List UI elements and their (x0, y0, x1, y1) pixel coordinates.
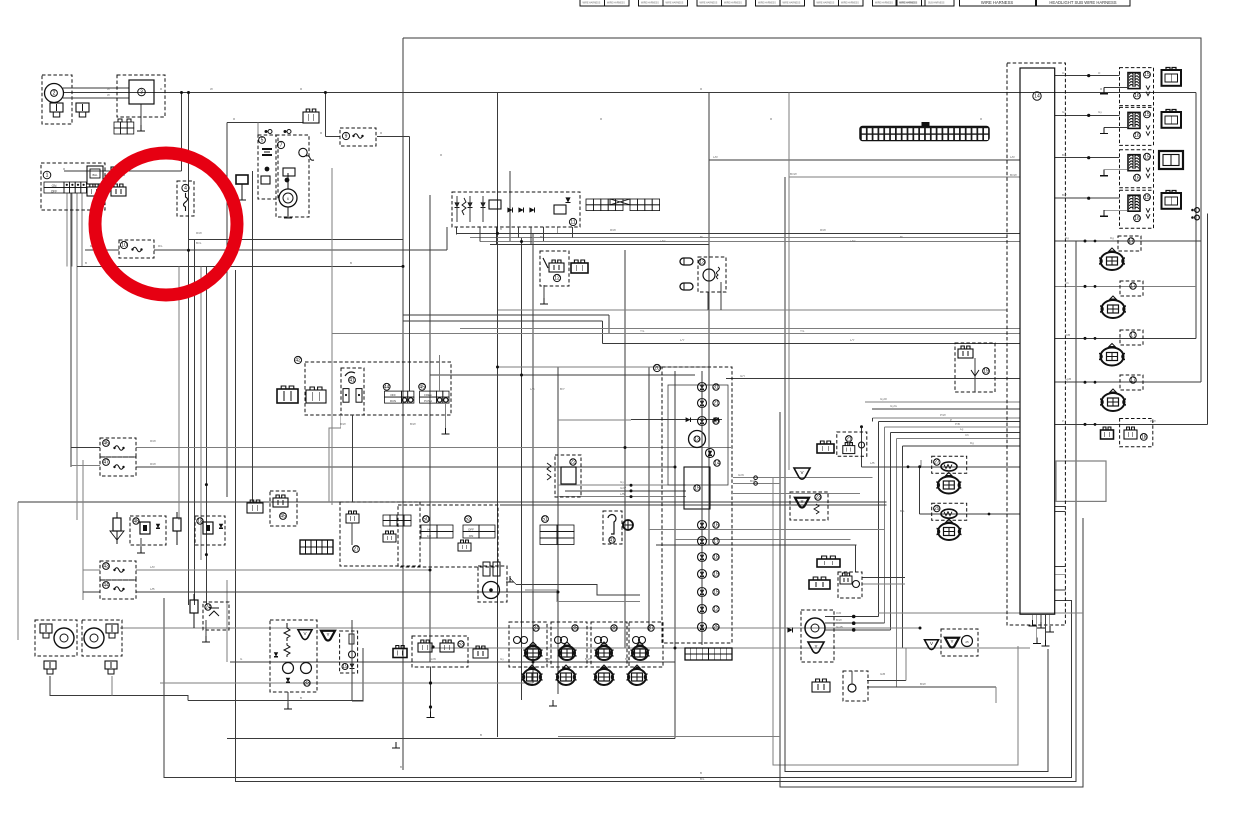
coolant temp sensor (24) (190, 600, 198, 613)
svg-text:LO: LO (427, 534, 432, 538)
wire: fuse9 wires (325, 136, 340, 138)
wire: vertical x430 (429, 195, 431, 662)
svg-text:G/B: G/B (880, 672, 885, 676)
throttle body connector row (523, 669, 541, 685)
svg-text:16: 16 (713, 523, 719, 529)
svg-text:WIRE HARNESS: WIRE HARNESS (583, 2, 601, 5)
wire: meter diode row (631, 419, 722, 421)
bar bottom pins (1032, 614, 1034, 626)
wire: bar side stubs (1055, 506, 1066, 508)
svg-text:B/L: B/L (700, 777, 705, 781)
wire: switch feed horizontal (64, 170, 182, 172)
connector F dark (809, 580, 830, 589)
left horn 1 (35, 620, 77, 656)
svg-text:47: 47 (103, 460, 109, 466)
svg-text:Gy: Gy (620, 480, 624, 484)
svg-text:18: 18 (713, 555, 719, 561)
svg-text:13: 13 (699, 260, 705, 266)
svg-text:WIRE HARNESS: WIRE HARNESS (724, 2, 742, 5)
wire: y628 long gray (120, 627, 920, 629)
intake air pressure sensor (29) (932, 503, 967, 520)
wire: injector row 1 (1055, 240, 1201, 242)
wire: pickup stair (510, 578, 640, 595)
svg-text:21: 21 (713, 401, 719, 407)
svg-text:W: W (107, 93, 110, 97)
wire: main switch legs (66, 193, 68, 266)
wire: vertical x709 (708, 93, 710, 546)
battery (5) (258, 135, 278, 199)
O2 sensor junction bullets (852, 615, 856, 619)
wire: vertical x625 (624, 250, 626, 648)
oil pressure relay (28) (843, 671, 868, 701)
bold ring connector (623, 520, 633, 530)
intake solenoid group 3 (36) (591, 622, 627, 667)
svg-text:35: 35 (572, 626, 578, 632)
intake solenoid group 2 (35) (551, 622, 587, 667)
svg-text:46: 46 (103, 441, 109, 447)
wire: TPS link vertical (919, 467, 921, 514)
wire: bottom bus y738 (227, 737, 675, 739)
wire: comp26 drop (855, 545, 857, 572)
indicator triangle V (794, 468, 810, 479)
wire: harness h y367 (498, 366, 710, 368)
svg-text:R/W: R/W (196, 231, 202, 235)
connector SdM dark (817, 444, 834, 453)
legend box WIRE HARNESS (960, 0, 1036, 6)
svg-text:42: 42 (295, 358, 301, 364)
svg-text:B/W: B/W (340, 422, 346, 426)
relay (26) small (838, 572, 862, 598)
svg-text:16: 16 (1134, 216, 1140, 222)
svg-text:13: 13 (694, 437, 700, 443)
svg-text:Y: Y (800, 499, 803, 504)
svg-text:17: 17 (1130, 284, 1136, 290)
wire: rectifier output main feed (63, 92, 1196, 94)
wire: coil feed 2 (1055, 114, 1120, 116)
wire: x227 low section (226, 580, 228, 662)
ignition fuse (4) (177, 181, 194, 216)
svg-text:18: 18 (1141, 435, 1147, 441)
svg-text:B/W: B/W (750, 479, 756, 483)
svg-text:Gy/R: Gy/R (880, 397, 888, 401)
svg-text:B/Y: B/Y (560, 387, 565, 391)
wire: meters bus y420 (558, 419, 631, 421)
svg-text:L/B: L/B (530, 387, 535, 391)
ground symbols row (552, 700, 554, 706)
wire: loop A (785, 177, 1048, 772)
wire: vertical x403 (402, 38, 404, 770)
coil connector 3 (1159, 151, 1183, 169)
wire: sensor cluster verticals (920, 460, 922, 467)
wire colour code table (586, 199, 593, 205)
diode-unit wire (351, 620, 353, 701)
wire: top bus to right edge (403, 38, 1201, 382)
svg-text:Y/L: Y/L (640, 329, 645, 333)
engine stop switch (40)(41) inner box (341, 368, 364, 415)
svg-text:R/W: R/W (150, 439, 156, 443)
svg-text:G/W: G/W (620, 486, 626, 490)
svg-text:16: 16 (1134, 93, 1140, 99)
svg-text:B/W: B/W (585, 657, 591, 661)
wire: vertical main harness left B (194, 239, 196, 605)
svg-text:44: 44 (384, 384, 390, 390)
svg-text:L/B: L/B (620, 492, 625, 496)
svg-text:7: 7 (280, 143, 283, 149)
wire: bus y315 (403, 314, 609, 316)
diode pack near meter (787, 627, 792, 632)
fuse (9) 30A (340, 128, 376, 146)
second junction diamond (285, 178, 290, 183)
svg-text:WIRE HARNESS: WIRE HARNESS (700, 2, 718, 5)
ignition coil 2 (15) with spark plug (16) (1120, 107, 1154, 145)
ignition coil 4 (15) with spark plug (16) (1120, 190, 1154, 228)
shield gray box (1056, 461, 1106, 501)
svg-text:3: 3 (140, 90, 143, 96)
wire: vertical x521 (521, 238, 523, 700)
svg-text:Gy/G: Gy/G (890, 404, 898, 408)
wire: comp28 risers (905, 648, 907, 680)
connector right of group (473, 649, 488, 658)
wire: right vertical to injector row3 (1195, 93, 1197, 339)
meter LEDs upper (698, 383, 707, 392)
sensor (48) (130, 516, 166, 545)
wire: fuse row 47 output (136, 466, 675, 468)
legend box HEADLIGHT SUB WIRE HARNESS (1037, 0, 1131, 6)
wire: injector row 2 (1055, 285, 1196, 287)
sidestand switch ground (543, 285, 545, 300)
wire: vertical battery drop (226, 122, 228, 497)
wire: corner x602 (602, 321, 604, 343)
coil connector 2 (1162, 112, 1182, 128)
wire: vertical x789 (788, 93, 790, 471)
svg-text:2: 2 (53, 91, 56, 97)
meter LCD box (15) (684, 467, 710, 509)
wire: gray y613 (878, 612, 1083, 614)
svg-text:52: 52 (465, 517, 471, 523)
rear brake switch (21) (837, 432, 867, 456)
wire: vertical x181 from main bus (181, 93, 183, 172)
wire: vertical x649 (648, 367, 650, 631)
svg-text:B/Y: B/Y (1062, 193, 1067, 197)
svg-text:Ch: Ch (1065, 281, 1069, 285)
wire: stair verticals down (878, 421, 880, 616)
wire: comp28 rows (867, 679, 906, 681)
connector block below rectifier (114, 122, 121, 128)
svg-text:HEADLIGHT SUB WIRE HARNESS: HEADLIGHT SUB WIRE HARNESS (1049, 0, 1116, 5)
svg-text:Y/L: Y/L (800, 329, 805, 333)
red highlight circle (95, 153, 237, 295)
connector pair under BHL (87, 187, 101, 196)
wire: bar feed y177 (789, 176, 1020, 178)
svg-text:WIRE HARNESS: WIRE HARNESS (607, 2, 625, 5)
fuel injector 3 (17) (1120, 330, 1143, 345)
svg-text:1: 1 (46, 173, 49, 179)
ignition coil 3 (15) with spark plug (16) (1120, 150, 1154, 188)
svg-text:Br: Br (540, 235, 543, 239)
svg-text:16: 16 (1134, 133, 1140, 139)
svg-text:B: B (400, 765, 402, 769)
svg-text:11: 11 (570, 220, 575, 226)
meter assembly (20) (662, 367, 732, 643)
relay (45) flasher (270, 491, 297, 526)
svg-text:6: 6 (287, 197, 289, 201)
svg-text:B/L: B/L (1062, 153, 1067, 157)
svg-text:B: B (500, 227, 502, 231)
sensor row 5 connectors (18) (1120, 419, 1153, 447)
meter diodes on row (686, 417, 691, 422)
wire: loop B (164, 598, 1071, 778)
svg-text:15: 15 (1144, 154, 1150, 160)
handlebar switch assembly (42) (305, 362, 451, 415)
svg-text:WIRE HARNESS: WIRE HARNESS (981, 0, 1014, 5)
AC magneto generator (2) (42, 75, 72, 124)
starter relay (7) and starter motor (6) (276, 135, 309, 217)
wire: bus y239 (189, 238, 404, 240)
wire: bar feed y343 (603, 342, 1021, 344)
sensor (13) neutral switch (195, 516, 225, 545)
svg-text:L/W: L/W (660, 239, 666, 243)
meter clock circle (13) (689, 431, 706, 448)
wire: battery positive bus (227, 121, 303, 123)
svg-text:Br: Br (900, 235, 903, 239)
svg-text:12: 12 (554, 276, 560, 282)
svg-text:19: 19 (983, 369, 989, 375)
svg-text:25: 25 (713, 625, 719, 631)
fuse (43) (100, 561, 136, 580)
fusible link connectors (265, 130, 268, 133)
svg-text:L/Y: L/Y (850, 338, 855, 342)
wire: vertical x558 (557, 367, 559, 694)
svg-text:R/W: R/W (150, 462, 156, 466)
svg-text:W: W (107, 87, 110, 91)
bullet connectors right edge (1195, 208, 1200, 213)
svg-text:15: 15 (1144, 112, 1150, 118)
svg-text:24: 24 (205, 605, 211, 611)
wire: bus y540 (675, 539, 851, 541)
svg-text:44: 44 (103, 583, 109, 589)
svg-text:17: 17 (713, 539, 719, 545)
svg-text:WIRE HARNESS: WIRE HARNESS (783, 2, 801, 5)
sidestand switch (12) (540, 251, 569, 286)
wire: TPS row 2 (920, 513, 1020, 515)
wire: comp26 rows (862, 577, 905, 579)
svg-text:B: B (700, 771, 702, 775)
svg-text:PUSH: PUSH (424, 399, 432, 403)
relay box (26) with diode (27) (340, 502, 420, 566)
wire: riser x447 (446, 227, 448, 250)
svg-text:5: 5 (261, 138, 264, 144)
wire: bus y244 (490, 244, 709, 246)
svg-text:12: 12 (713, 607, 719, 613)
wire: relay output bus y310 (498, 309, 1007, 311)
pickup ground (509, 576, 511, 582)
svg-text:15: 15 (1144, 195, 1150, 201)
svg-text:Br/L: Br/L (196, 241, 202, 245)
small relay box right (111, 167, 124, 175)
svg-text:23: 23 (815, 495, 821, 501)
horn connector 2 (105, 661, 117, 669)
svg-text:31: 31 (713, 385, 719, 391)
svg-text:19: 19 (342, 664, 348, 670)
svg-text:15: 15 (694, 486, 700, 492)
junction dots on main feed (180, 91, 183, 94)
svg-text:R/L: R/L (158, 244, 163, 248)
legend strip: wire harness name boxes (top edge, cropped) (580, 0, 605, 6)
speed sensor symbol (173, 518, 181, 531)
main harness joint connector strip (860, 127, 989, 141)
svg-text:13: 13 (197, 519, 203, 525)
svg-text:41: 41 (609, 538, 615, 544)
svg-text:16: 16 (1134, 175, 1140, 181)
wire: vertical x675 (674, 371, 676, 738)
multi-pin connector mid-left (300, 540, 333, 554)
svg-text:WIRE HARNESS: WIRE HARNESS (641, 2, 659, 5)
wire: fuse row 46 output (136, 447, 731, 449)
svg-text:9: 9 (345, 134, 348, 140)
wire: switch leg long (76, 266, 78, 520)
svg-text:Y: Y (950, 639, 953, 644)
svg-text:ON: ON (52, 184, 57, 188)
svg-text:WIRE HARNESS: WIRE HARNESS (841, 2, 859, 5)
battery positive connector (303, 112, 319, 123)
bottom joint connector (685, 648, 732, 660)
svg-text:O/B: O/B (1065, 333, 1070, 337)
svg-text:G/Y: G/Y (740, 374, 745, 378)
svg-text:Y: Y (814, 644, 817, 649)
svg-text:50: 50 (423, 517, 429, 523)
fuse (46) (100, 438, 136, 457)
svg-text:17: 17 (1130, 378, 1136, 384)
intake solenoid group 4 (37) (629, 622, 663, 667)
wire: vertical to lower fuses (82, 460, 84, 600)
wire: injector row 3 (1055, 337, 1196, 339)
connector left of group (393, 649, 407, 658)
diode block / relay assembly (11) (452, 192, 580, 227)
svg-text:SUB HARNESS: SUB HARNESS (928, 2, 945, 5)
connector comb bold left of 42 (277, 389, 298, 403)
svg-text:Dg: Dg (1065, 236, 1069, 240)
wire: TPS row 1 (862, 466, 1021, 468)
sensor (23) with resistor (790, 492, 828, 520)
svg-text:G/W: G/W (430, 657, 436, 661)
svg-text:37: 37 (648, 626, 654, 632)
fuel injector 1 (17) (1118, 236, 1141, 251)
oval connector b (680, 283, 693, 290)
headlight relay box BHL (87, 166, 103, 184)
coil connector 1 (1162, 70, 1182, 86)
svg-text:Br: Br (700, 235, 703, 239)
sensor ground stub (205, 620, 207, 638)
wire: rectifier ground (140, 104, 142, 125)
diode block pin stubs (456, 227, 458, 235)
wire: meter feed rows (558, 484, 686, 486)
svg-text:B: B (480, 733, 482, 737)
svg-text:P/B: P/B (955, 422, 960, 426)
fuse (47) (100, 457, 136, 476)
wire: fuse row 44 output (136, 591, 558, 593)
wire: bottom-left horn drops (50, 676, 188, 701)
svg-text:48: 48 (133, 519, 139, 525)
wire: bar feed y402 (865, 401, 1020, 403)
wire: loop gray right (773, 478, 1018, 765)
intake solenoid group 1 (34) (509, 622, 547, 667)
left horn 2 (82, 620, 122, 656)
coil connector 4 (1162, 193, 1182, 209)
main switch (1) (41, 163, 105, 210)
svg-text:36: 36 (611, 626, 617, 632)
wire: bus y321 (403, 320, 603, 322)
connector M dark (817, 559, 840, 567)
wire: y700 bus (188, 700, 363, 702)
svg-text:Lg: Lg (960, 427, 964, 431)
svg-text:4: 4 (184, 186, 187, 192)
wire: vertical x510 (509, 171, 511, 242)
wire: O2 sensor rows (825, 616, 879, 618)
svg-text:Br/W: Br/W (790, 172, 797, 176)
sensor (22) throttle switch (555, 455, 581, 497)
connector below oxygen sensor (812, 682, 830, 692)
wire: bar feed y241 (480, 241, 1020, 243)
connector pair mid (247, 503, 263, 513)
wire: bar feed y334 (332, 333, 1020, 335)
wire: gray verticals below switch (178, 266, 180, 520)
svg-text:V: V (303, 631, 306, 636)
svg-text:O/R: O/R (836, 611, 842, 615)
wire: vertical x71 to fuse stack (70, 193, 72, 467)
svg-text:Gy: Gy (1062, 110, 1066, 114)
starter switch (52) (465, 516, 472, 523)
wire: bar feed y378 (726, 378, 1020, 380)
svg-text:Y: Y (326, 632, 329, 637)
wire: bus y505 (500, 504, 886, 506)
svg-text:14: 14 (714, 461, 720, 467)
svg-text:OFF: OFF (468, 528, 474, 532)
oxygen sensor (38) (801, 610, 834, 662)
meter LEDs lower (698, 521, 707, 530)
svg-text:WIRE HARNESS: WIRE HARNESS (875, 2, 893, 5)
wire: stair cluster into bar (873, 417, 1020, 419)
svg-text:53: 53 (458, 642, 464, 648)
wire: y662 bus (230, 661, 675, 663)
meter diode (14) (706, 449, 715, 458)
svg-text:RUN: RUN (390, 399, 396, 403)
turn indicator triangles (298, 630, 312, 640)
svg-text:BHL: BHL (92, 173, 98, 177)
wire: relay drops (707, 293, 709, 310)
frame ground connector (9) (236, 175, 248, 184)
dimmer switch (50) (398, 505, 498, 567)
wire: bus y545 (656, 544, 857, 546)
svg-text:WIRE HARNESS: WIRE HARNESS (666, 2, 684, 5)
wire: bus y502 (18, 501, 886, 503)
svg-text:B/O: B/O (625, 657, 631, 661)
horn connector 1 (44, 661, 56, 669)
svg-text:V: V (800, 470, 803, 475)
wire: fuse10 feed (85, 249, 119, 251)
svg-text:33: 33 (304, 681, 310, 687)
svg-text:Gy/B: Gy/B (836, 625, 843, 629)
wire: fuse row 43 output (136, 569, 430, 571)
svg-text:41: 41 (349, 378, 355, 384)
svg-text:Lg/B: Lg/B (1065, 377, 1071, 381)
svg-text:G/W: G/W (738, 473, 744, 477)
svg-text:17: 17 (1128, 239, 1134, 245)
svg-text:19: 19 (713, 572, 719, 578)
svg-text:Dg: Dg (1110, 236, 1114, 240)
wire: bottom bus y736 right (558, 735, 780, 737)
engine stop switch (51) (542, 516, 549, 523)
svg-text:21: 21 (846, 436, 852, 442)
